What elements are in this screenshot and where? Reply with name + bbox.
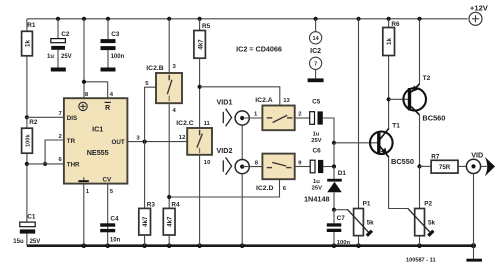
wire VID shield to ground: [473, 174, 475, 246]
analog switch IC2.A: [255, 97, 302, 130]
IC1 pin number labels: [59, 92, 141, 195]
wire IC2.A pin 2 to C5: [295, 117, 310, 119]
wire C5 to T1 base node: [323, 118, 334, 143]
wire IC1 OUT pin 3 to IC2.C pin 12: [127, 141, 187, 143]
wire THR to IC1 pin 6: [27, 163, 64, 165]
svg-text:VID2: VID2: [217, 146, 233, 155]
svg-text:1N4148: 1N4148: [304, 195, 330, 204]
IC1 reset-bar symbol pin 4: [105, 102, 111, 112]
svg-text:15u: 15u: [13, 239, 24, 245]
connector VID1 input: [217, 97, 250, 126]
resistor R3: [139, 142, 156, 246]
IC1 plus-supply symbol pin 8: [79, 102, 87, 110]
resistor R2: [22, 117, 38, 222]
svg-text:C4: C4: [110, 215, 119, 222]
wire VID1 shield down to VID2 shield: [241, 125, 243, 160]
wire bottom ground rail: [27, 244, 474, 247]
svg-text:R7: R7: [431, 153, 440, 160]
wire control node to IC2.D pin 6: [169, 179, 279, 197]
svg-text:R5: R5: [202, 23, 211, 30]
+12V supply terminal: [469, 3, 489, 25]
connector VID2 input: [217, 146, 250, 175]
transistor T2 BC560: [403, 75, 445, 122]
wire junction to IC2.A pin 13: [200, 87, 280, 106]
wire C6 to D1 node: [323, 166, 334, 168]
svg-text:4k7: 4k7: [197, 39, 204, 50]
svg-text:NE555: NE555: [87, 148, 109, 157]
IC2 = CD4066 note: [236, 45, 282, 54]
wire node to T2 base: [389, 98, 409, 100]
svg-text:11: 11: [204, 121, 211, 127]
svg-text:BC560: BC560: [422, 113, 445, 122]
svg-text:R3: R3: [147, 201, 156, 208]
IC1 internal ground symbol pin 1: [78, 177, 88, 182]
capacitor C4: [100, 184, 120, 246]
svg-text:T2: T2: [423, 75, 431, 82]
op-amp U1 : timer IC1 NE555 body: [64, 98, 128, 183]
wire IC2.D pin 9 to C6: [295, 166, 311, 168]
svg-text:75R: 75R: [439, 164, 451, 171]
svg-text:+12V: +12V: [470, 3, 489, 12]
svg-text:BC550: BC550: [391, 157, 414, 166]
svg-text:14: 14: [313, 36, 320, 42]
wire OUT node up to IC2.B pin 5: [145, 87, 156, 141]
node R4/control junction: [167, 195, 171, 199]
node R6/T2-base/T1-collector junction: [387, 97, 391, 101]
svg-text:5k: 5k: [367, 219, 375, 226]
capacitor C2: [47, 19, 72, 68]
svg-text:1k: 1k: [386, 38, 393, 45]
svg-text:4k7: 4k7: [167, 216, 174, 227]
analog switch IC2.B: [145, 19, 182, 114]
svg-text:100k: 100k: [25, 134, 31, 147]
wire IC2.B pin 4 down to R4: [168, 103, 170, 208]
wire DIS to IC1 pin 7: [27, 116, 64, 118]
svg-text:100n: 100n: [337, 240, 351, 246]
svg-text:IC2.A: IC2.A: [255, 97, 272, 104]
svg-text:C2: C2: [61, 31, 70, 38]
node junction dots on bottom rail: [82, 243, 477, 248]
ground symbol bottom right: [466, 246, 482, 262]
wire +12V top supply rail: [27, 18, 468, 20]
node T2 collector/R7/P2 junction: [417, 164, 421, 168]
svg-text:THR: THR: [67, 161, 80, 168]
svg-text:C5: C5: [312, 99, 321, 106]
resistor R7: [420, 153, 467, 173]
wire TR to IC1 pin 2: [45, 140, 64, 164]
svg-text:D1: D1: [338, 170, 347, 177]
svg-text:VID1: VID1: [217, 97, 233, 106]
svg-text:CV: CV: [102, 177, 111, 184]
resistor R5: [194, 19, 211, 128]
node T1 base junction: [332, 141, 336, 145]
transistor T1 BC550: [370, 122, 414, 166]
potentiometer P2: [408, 166, 436, 245]
resistor R1: [22, 19, 36, 118]
svg-text:DIS: DIS: [67, 115, 77, 122]
wire IC1 pin 1 to ground: [83, 184, 85, 246]
resistor R4: [163, 201, 180, 245]
svg-text:4k7: 4k7: [142, 216, 149, 227]
capacitor C3: [101, 19, 125, 68]
capacitor C5: [310, 99, 323, 144]
node DIS junction: [25, 115, 29, 119]
node OUT junction: [143, 140, 147, 144]
node THR junction: [25, 162, 47, 166]
node pin8/pin4 junction: [82, 80, 86, 84]
wire IC1 pins 8 and 4 to supply: [84, 19, 108, 98]
wire base node down to C6 node: [333, 143, 335, 167]
node C6/D1 junction: [332, 164, 336, 168]
wire T1 emitter down to P2 wiper: [389, 157, 408, 208]
svg-text:25V: 25V: [61, 54, 72, 60]
svg-text:R4: R4: [171, 201, 180, 208]
svg-text:IC2.D: IC2.D: [256, 185, 273, 192]
svg-text:C6: C6: [313, 147, 322, 154]
svg-text:T1: T1: [392, 122, 400, 129]
svg-text:13: 13: [283, 98, 290, 104]
svg-text:10n: 10n: [110, 238, 121, 244]
svg-text:VID: VID: [471, 151, 483, 160]
svg-text:P2: P2: [424, 200, 432, 207]
svg-text:IC1: IC1: [92, 125, 103, 134]
wire base node to T1: [334, 142, 378, 144]
ground bar under IC2 pin 7: [308, 78, 324, 82]
svg-text:1u: 1u: [47, 54, 54, 60]
svg-text:25V: 25V: [312, 185, 322, 191]
svg-text:7: 7: [314, 62, 317, 68]
wire VID1 to IC2.A pin 1: [242, 112, 262, 118]
svg-text:C1: C1: [27, 214, 36, 221]
svg-text:100587 - 11: 100587 - 11: [406, 257, 436, 263]
svg-text:OUT: OUT: [112, 139, 125, 146]
svg-text:IC2 = CD4066: IC2 = CD4066: [236, 45, 282, 54]
ground bar under C3: [101, 68, 116, 72]
svg-text:1u: 1u: [313, 179, 320, 185]
capacitor C1: [13, 214, 40, 246]
svg-text:R1: R1: [27, 22, 36, 29]
svg-text:R2: R2: [29, 119, 38, 126]
svg-text:25V: 25V: [311, 138, 321, 144]
svg-text:TR: TR: [67, 138, 76, 145]
ground bar under C2: [51, 68, 66, 72]
svg-text:C3: C3: [111, 31, 120, 38]
connector VID output: [466, 151, 495, 177]
svg-text:R: R: [105, 105, 110, 112]
node D1/C7/P1-wiper junction: [332, 208, 336, 212]
IC2 power pins 14 and 7: [310, 19, 322, 79]
node junction dots on top rail: [56, 17, 422, 21]
potentiometer P1: [334, 19, 374, 246]
wire IC2.C pin 10 to ground: [199, 155, 201, 246]
svg-text:100n: 100n: [111, 54, 125, 60]
wire VID2 shield to ground: [241, 174, 243, 246]
resistor R6: [383, 19, 400, 100]
svg-text:10: 10: [204, 160, 211, 166]
svg-text:1k: 1k: [25, 40, 32, 47]
svg-text:IC2: IC2: [310, 48, 321, 55]
diode D1 1N4148: [304, 167, 346, 210]
capacitor C6: [310, 147, 323, 191]
analog switch IC2.D: [256, 154, 302, 192]
svg-text:P1: P1: [363, 200, 371, 207]
svg-text:IC2.C: IC2.C: [176, 120, 193, 127]
node R5/pin11/pin13 junction: [198, 85, 202, 89]
wire T1 collector up to R6 node: [388, 99, 390, 128]
wire T2 emitter to supply: [419, 19, 421, 85]
wire VID2 to IC2.D pin 8: [242, 160, 262, 166]
svg-text:C7: C7: [337, 215, 346, 222]
analog switch IC2.C: [176, 120, 212, 166]
capacitor C7: [327, 210, 351, 247]
svg-text:5k: 5k: [428, 219, 436, 226]
svg-text:12: 12: [179, 135, 186, 141]
svg-text:1u: 1u: [313, 131, 320, 137]
drawing number: [406, 257, 436, 263]
wire T2 collector down to R7 node: [419, 115, 421, 166]
svg-text:25V: 25V: [30, 239, 41, 245]
svg-text:IC2.B: IC2.B: [146, 65, 163, 72]
